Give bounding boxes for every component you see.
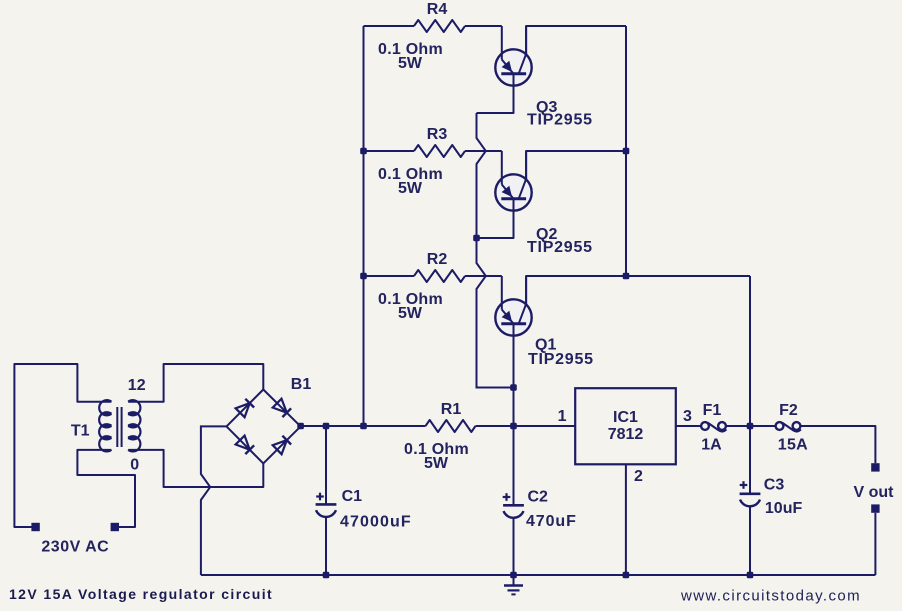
wire IC1 pin 3 to F1 [676, 425, 701, 427]
svg-text:5W: 5W [424, 455, 449, 472]
wire C1 node to left bus [326, 425, 364, 427]
transistor Q1 TIP2955 [495, 299, 531, 335]
node bridge DC+ junction [297, 423, 304, 430]
fuse F1 [701, 422, 709, 430]
node rail C3 junction [747, 572, 754, 579]
wire Q3 base [477, 74, 514, 113]
svg-text:3: 3 [683, 408, 692, 425]
svg-text:2: 2 [634, 468, 643, 485]
svg-text:IC1: IC1 [613, 409, 638, 426]
wire base bus with crossovers [477, 113, 514, 388]
svg-text:T1: T1 [71, 423, 90, 440]
terminal V out negative [871, 504, 879, 512]
resistor R2 [414, 270, 465, 282]
node output junction C3/collectors [747, 423, 754, 430]
svg-text:47000uF: 47000uF [340, 514, 412, 531]
bridge B1 edge left-top [227, 390, 264, 427]
svg-text:TIP2955: TIP2955 [527, 239, 593, 256]
svg-text:F1: F1 [703, 402, 722, 419]
wire left bus [363, 26, 365, 426]
resistor R1 [426, 420, 476, 432]
svg-text:5W: 5W [398, 180, 423, 197]
wire ground rail [201, 574, 876, 576]
fuse F2 [776, 422, 784, 430]
svg-text:470uF: 470uF [526, 513, 577, 530]
wire Q2 base [477, 199, 514, 238]
svg-text:V out: V out [854, 484, 895, 501]
svg-text:C2: C2 [528, 489, 549, 506]
svg-text:C1: C1 [342, 488, 363, 505]
terminal V out positive [871, 463, 879, 471]
wire right bus [625, 26, 627, 276]
resistor R4 [414, 20, 465, 32]
wire R3 row left [364, 150, 415, 152]
svg-text:R1: R1 [441, 401, 462, 418]
wire Q1 collector row [526, 276, 750, 304]
svg-text:15A: 15A [778, 437, 808, 454]
bridge B1 edge left-bottom [227, 426, 264, 463]
wire R2 to Q1 emitter [465, 275, 502, 277]
IC1 7812 box [575, 388, 676, 464]
node right bus Q2 junction [623, 148, 630, 155]
svg-text:5W: 5W [398, 55, 423, 72]
wire secondary 12 lead to bridge top [128, 364, 263, 402]
svg-text:TIP2955: TIP2955 [527, 112, 593, 129]
svg-text:www.circuitstoday.com: www.circuitstoday.com [680, 588, 861, 605]
wire R4 to Q3 emitter [465, 25, 502, 27]
svg-text:12V 15A Voltage regulator circ: 12V 15A Voltage regulator circuit [9, 586, 273, 602]
wire R3 to Q2 emitter [465, 150, 502, 152]
node left bus R3 junction [360, 148, 367, 155]
terminal 230V AC right [111, 523, 119, 531]
svg-text:0: 0 [130, 457, 139, 474]
svg-text:1: 1 [558, 408, 567, 425]
wire left bus to R1 [364, 425, 426, 427]
wire F1 to output node [726, 425, 750, 427]
wire IC1 pin 2 to ground rail [625, 464, 627, 575]
wire primary bottom lead to AC terminal 2 [77, 450, 135, 527]
node Q1 base junction [510, 384, 517, 391]
capacitor C2 470uF [513, 426, 515, 505]
wire R1 to IC1 pin 1 [476, 425, 576, 427]
node base bus Q2 junction [473, 235, 480, 242]
wire collector rail down to output node [749, 276, 751, 426]
bridge B1 diode D2 (top to right) [273, 399, 287, 413]
svg-text:5W: 5W [398, 305, 423, 322]
transistor Q3 TIP2955 [495, 49, 531, 85]
svg-text:R2: R2 [427, 251, 448, 268]
node rail IC1 pin2 junction [623, 572, 630, 579]
wire bridge left vertex to ground rail [201, 426, 227, 575]
transformer T1 primary winding [99, 400, 111, 415]
wire Q3 collector to right bus [526, 26, 626, 54]
wire output node to F2 [750, 425, 776, 427]
transformer T1 core [116, 407, 118, 447]
transistor Q2 TIP2955 [495, 174, 531, 210]
wire top row left [364, 25, 415, 27]
wire F2 to V out terminal [801, 426, 876, 463]
bridge B1 edge top-right [263, 390, 300, 427]
terminal 230V AC left [31, 523, 39, 531]
capacitor C3 10uF [749, 426, 751, 494]
wire R2 row left [364, 275, 415, 277]
bridge B1 edge bottom-right [263, 426, 300, 463]
bridge B1 diode D4 (bottom to right) [273, 440, 287, 454]
node left bus R2 junction [360, 273, 367, 280]
svg-text:10uF: 10uF [765, 500, 803, 517]
node left bus main row junction [360, 423, 367, 430]
wire bridge output to C1 node [301, 425, 326, 427]
bridge B1 diode D1 (left to top) [236, 403, 250, 417]
transformer T1 secondary winding [128, 400, 140, 415]
wire secondary 0 lead to bridge bottom [128, 450, 263, 487]
node base-drive junction on main row [510, 423, 517, 430]
svg-text:R3: R3 [427, 126, 448, 143]
svg-text:230V AC: 230V AC [41, 539, 109, 556]
node right bus Q1 junction [623, 273, 630, 280]
wire Q1 base [513, 324, 515, 388]
svg-text:12: 12 [128, 377, 146, 394]
svg-text:TIP2955: TIP2955 [528, 351, 594, 368]
wire V out negative to ground rail [874, 513, 876, 575]
node rail C2/ground junction [510, 572, 517, 579]
bridge B1 diode D3 (left to bottom) [236, 436, 250, 450]
ground [513, 575, 515, 586]
svg-text:R4: R4 [427, 1, 448, 18]
node C1 junction [323, 423, 330, 430]
svg-text:7812: 7812 [608, 426, 644, 443]
svg-text:C3: C3 [764, 477, 785, 494]
capacitor C1 47000uF [325, 426, 327, 504]
wire base node to main row [513, 388, 515, 427]
resistor R3 [414, 145, 465, 157]
wire Q2 collector row [526, 151, 626, 179]
svg-text:F2: F2 [779, 402, 798, 419]
node rail C1 junction [323, 572, 330, 579]
svg-text:B1: B1 [291, 376, 312, 393]
svg-text:1A: 1A [701, 437, 722, 454]
wire primary top lead to AC terminal 1 [14, 364, 111, 527]
